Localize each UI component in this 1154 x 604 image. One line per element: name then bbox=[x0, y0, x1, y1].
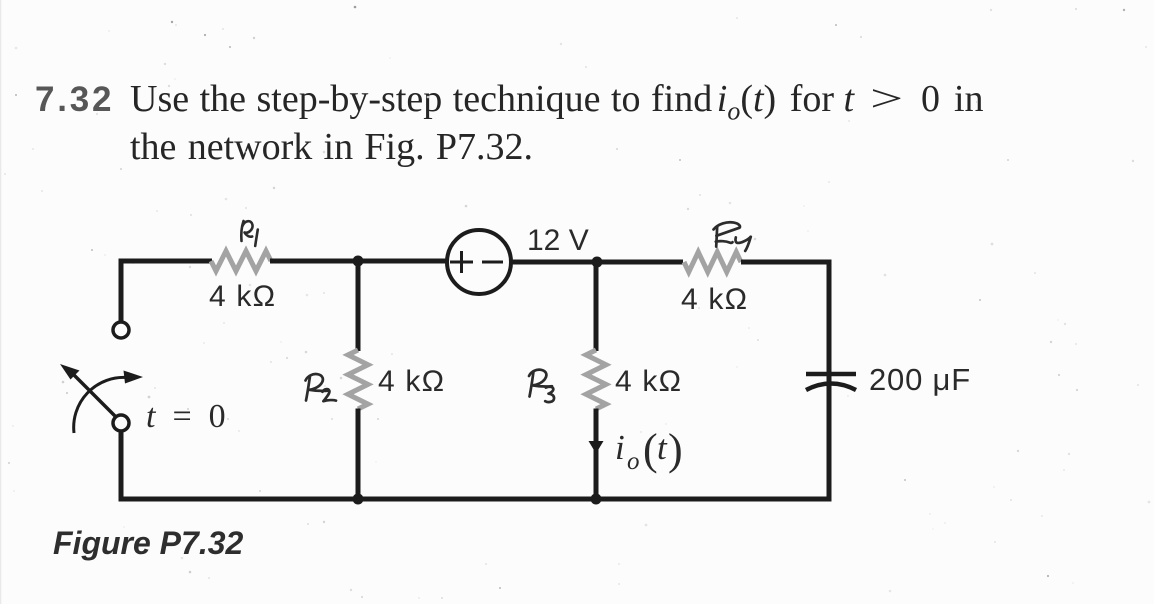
svg-text:200 μF: 200 μF bbox=[869, 362, 971, 397]
label R3 value 4 kΩ bbox=[615, 365, 682, 398]
svg-text:t: t bbox=[657, 428, 668, 467]
label io(t) bbox=[615, 425, 683, 475]
wire: R2 branch upper vertical bbox=[356, 261, 361, 351]
voltage source V1 12 V bbox=[447, 230, 511, 294]
wire: R3 branch lower vertical bbox=[594, 409, 599, 500]
resistor R3 (zigzag) bbox=[586, 350, 606, 409]
resistor R1 (zigzag) bbox=[211, 251, 271, 271]
node junction dot at bottom of R2 branch bbox=[353, 494, 364, 505]
label 200 uF bbox=[869, 362, 971, 397]
label R1 value 4 kΩ bbox=[209, 280, 276, 313]
wire: from switch bottom terminal to bottom rail bbox=[119, 431, 124, 499]
current arrow io(t) on R3 branch bbox=[589, 441, 604, 454]
svg-text:o: o bbox=[627, 448, 640, 475]
node junction dot at top of R2 branch bbox=[353, 256, 364, 267]
svg-text:(: ( bbox=[643, 425, 658, 474]
switch SW blade with arrowhead bbox=[60, 364, 115, 416]
label t = 0 bbox=[146, 398, 226, 435]
wire: top rail left segment from switch corner to R1 bbox=[121, 259, 212, 264]
wire: R3 branch upper vertical bbox=[594, 262, 599, 351]
figure caption bbox=[53, 525, 243, 562]
svg-text:i: i bbox=[615, 428, 625, 467]
svg-text:4 kΩ: 4 kΩ bbox=[681, 283, 748, 316]
label R2 value 4 kΩ bbox=[378, 365, 445, 398]
svg-text:4 kΩ: 4 kΩ bbox=[615, 365, 682, 398]
svg-text:t = 0: t = 0 bbox=[146, 398, 226, 435]
wire: left vertical from top rail to switch bbox=[119, 259, 124, 322]
wire: bottom rail bbox=[119, 497, 832, 502]
node junction dot at top of R3 branch bbox=[592, 257, 603, 268]
svg-text:12 V: 12 V bbox=[527, 224, 589, 257]
svg-text:4 kΩ: 4 kΩ bbox=[378, 365, 445, 398]
node junction dot at bottom of R3 branch bbox=[591, 494, 602, 505]
label R3 designator (handwritten) bbox=[529, 370, 554, 402]
switch SW bottom terminal bbox=[113, 415, 129, 431]
svg-text:4 kΩ: 4 kΩ bbox=[209, 280, 276, 313]
label R2 designator (handwritten) bbox=[306, 374, 337, 401]
resistor R2 (zigzag) bbox=[348, 350, 368, 409]
label 12 V bbox=[527, 224, 589, 257]
resistor R4 (zigzag) bbox=[684, 252, 741, 272]
wire: right vertical (top rail to bottom rail, passes capacitor) bbox=[827, 260, 832, 500]
wire: top rail from R3 node to R4 bbox=[597, 260, 683, 265]
problem statement text bbox=[35, 77, 1095, 121]
label R4 value 4 kΩ bbox=[681, 283, 748, 316]
wire: top rail from source to R3 node bbox=[511, 260, 597, 265]
capacitor C 200 uF plates bbox=[806, 374, 856, 390]
svg-text:): ) bbox=[668, 425, 683, 474]
wire: top rail from R1 to voltage source bbox=[270, 259, 447, 264]
label R4 designator (handwritten) bbox=[714, 222, 751, 251]
switch SW top terminal bbox=[113, 322, 129, 338]
switch SW motion arc with arrowhead bbox=[74, 371, 143, 434]
label R1 designator (handwritten) bbox=[241, 221, 257, 246]
wire: R2 branch lower vertical bbox=[356, 409, 361, 500]
wire: top rail from R4 to right corner bbox=[741, 260, 829, 265]
